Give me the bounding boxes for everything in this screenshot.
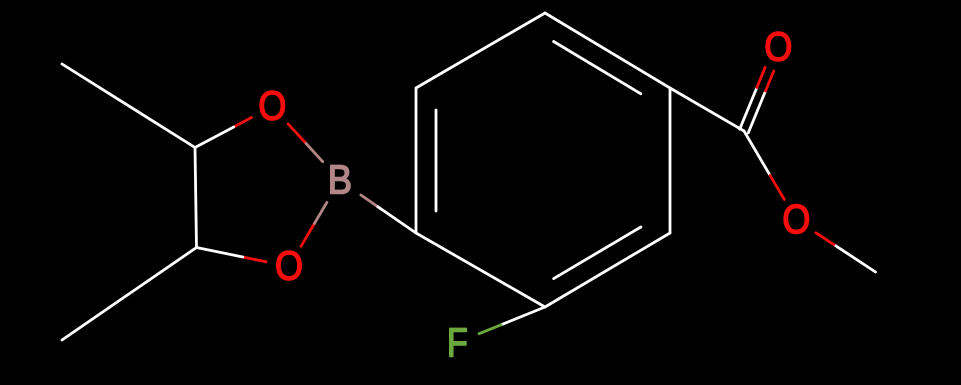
bond O_top-B half-a [288,124,306,144]
bond C_ar6-F half-b [479,325,501,334]
bond methyl M4 [62,248,197,341]
bond methyl M1 [62,64,195,148]
svg-text:B: B [328,158,352,203]
bond C_ar4-C [670,88,744,131]
bond O_top-Cq1 half-b [195,127,234,148]
bond B-C_ar1 half-a [361,195,378,207]
bond O_bot-Cq2 half-b [197,248,243,258]
svg-text:O: O [782,197,810,242]
svg-text:O: O [258,84,286,129]
bond O_top-B half-b [306,144,323,162]
bond O_r-CH3 half-b [836,246,876,272]
svg-text:F: F [447,320,468,365]
bond C=O linea O-half [766,71,774,91]
bond C-O_r half-b [770,175,784,199]
svg-text:O: O [275,244,303,289]
bond O_bot-B half-b [314,202,327,223]
bond O_r-CH3 half-a [816,233,836,246]
bond E45 [669,88,672,233]
bond E56 inner [554,227,641,279]
bond Cq1-Cq2 [195,148,197,248]
bond E23 [416,13,545,88]
bond O_top-Cq1 half-a [234,118,252,128]
bond O_bot-Cq2 half-a [243,257,266,262]
bond E12 [415,88,418,233]
bond C=O lineb O-half [757,67,765,87]
bond E34 [545,13,670,88]
bond E56 [545,233,670,307]
bond E12 inner [435,110,438,211]
bond E34 inner [554,42,641,94]
bond C=O linea C-half [748,91,765,133]
bond E61 [416,233,545,307]
bond C_ar6-F half-a [501,307,545,325]
bond C-O_r half-a [744,131,770,175]
svg-text:O: O [764,25,792,70]
bond B-C_ar1 half-b [378,207,416,233]
bond O_bot-B half-a [301,224,314,247]
bond C=O lineb C-half [740,88,757,130]
